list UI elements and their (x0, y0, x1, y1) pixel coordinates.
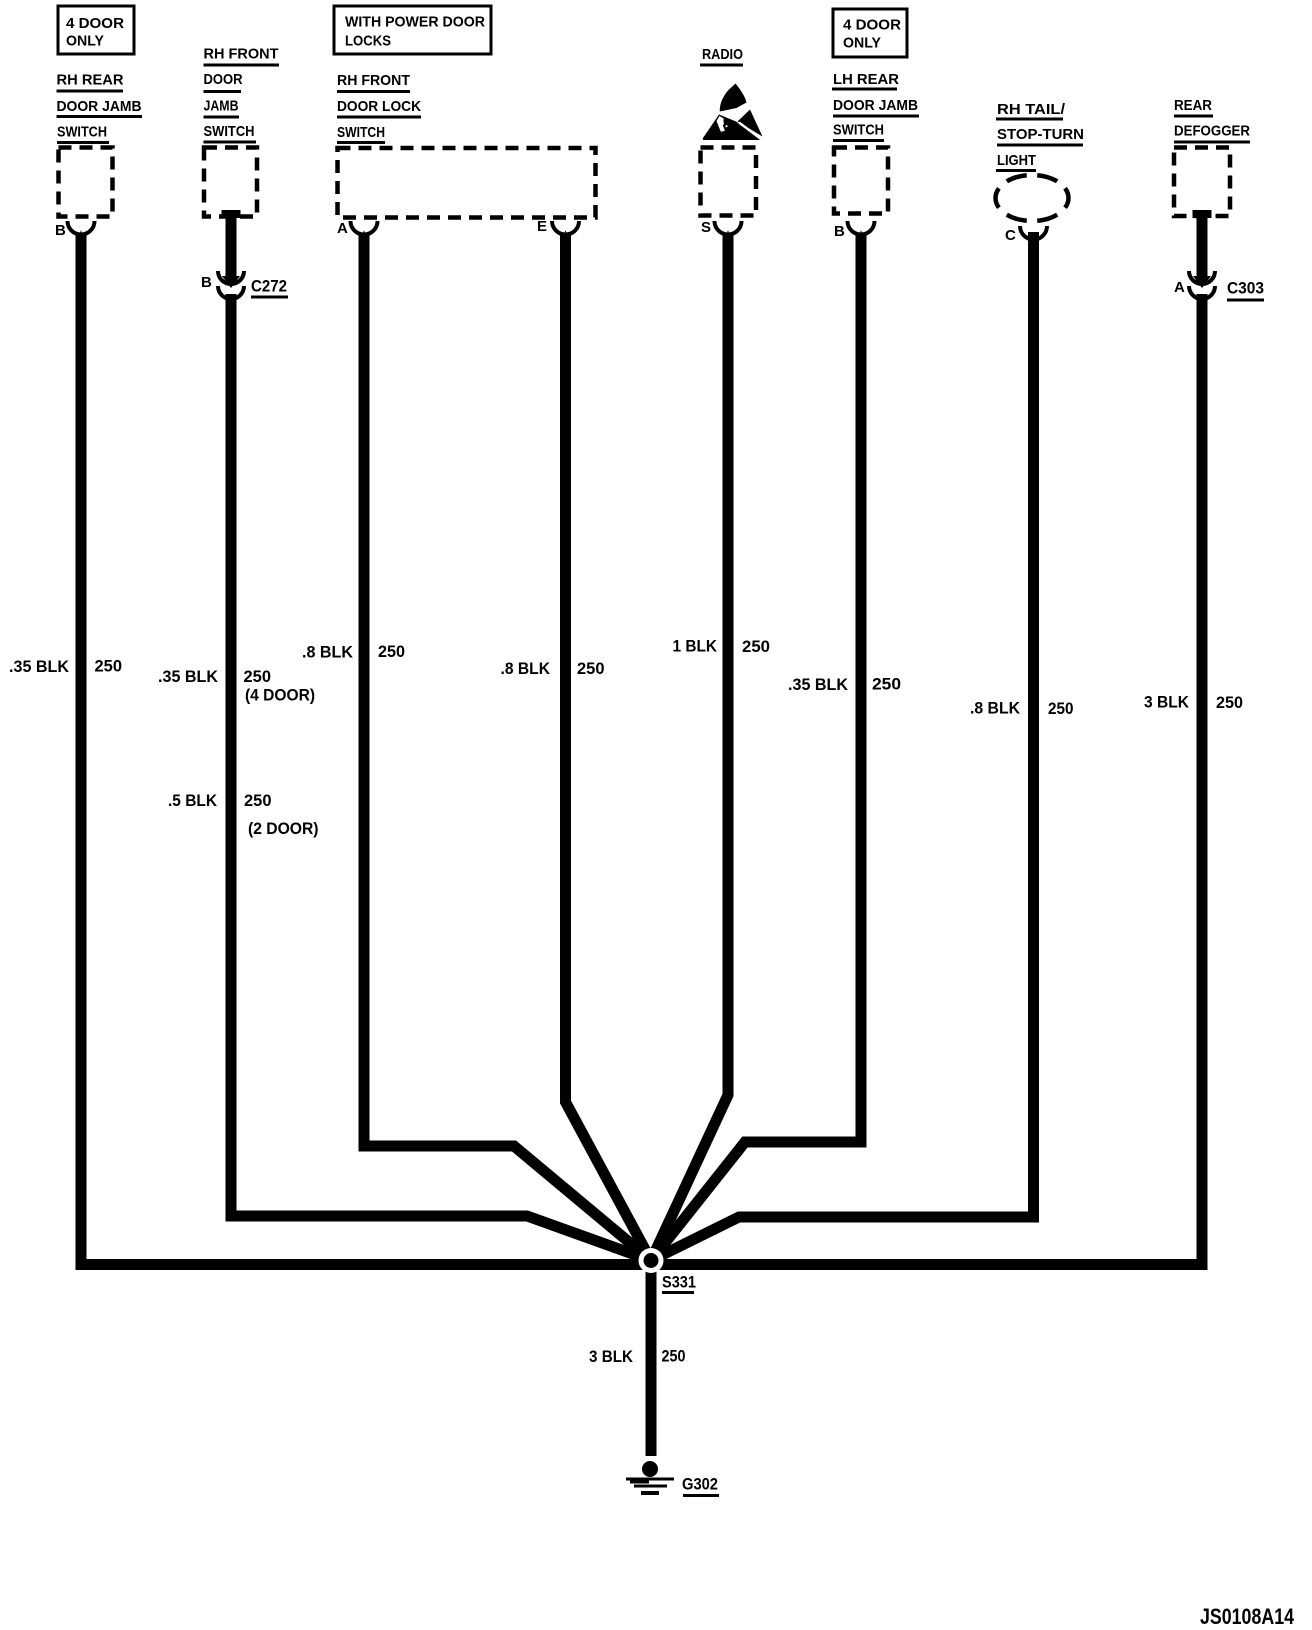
svg-text:DOOR JAMB: DOOR JAMB (833, 97, 918, 114)
svg-text:250: 250 (244, 667, 272, 686)
svg-text:250: 250 (872, 675, 901, 694)
svg-text:.35 BLK: .35 BLK (158, 667, 219, 686)
svg-text:S: S (701, 219, 711, 236)
svg-text:ONLY: ONLY (66, 33, 104, 50)
label LH REAR DOOR JAMB SWITCH (832, 71, 919, 141)
note box "4 DOOR ONLY" (right) (833, 9, 907, 57)
LH rear door jamb switch box (834, 148, 888, 214)
wire col6 (651, 234, 861, 1261)
svg-text:WITH POWER DOOR: WITH POWER DOOR (345, 14, 485, 31)
svg-text:RH REAR: RH REAR (57, 72, 124, 89)
svg-text:3 BLK: 3 BLK (589, 1347, 634, 1366)
svg-text:A: A (1174, 279, 1185, 296)
svg-text:.35 BLK: .35 BLK (788, 675, 849, 694)
svg-text:RH TAIL/: RH TAIL/ (997, 101, 1066, 118)
svg-text:C272: C272 (251, 277, 287, 296)
label RADIO (700, 46, 743, 65)
svg-text:JAMB: JAMB (204, 98, 239, 115)
pin B cup (RH rear door jamb switch) (55, 221, 95, 248)
svg-text:4 DOOR: 4 DOOR (843, 17, 901, 34)
svg-text:RADIO: RADIO (702, 46, 743, 63)
wire col7 (651, 232, 1034, 1261)
svg-text:1 BLK: 1 BLK (673, 637, 718, 656)
svg-text:B: B (201, 274, 212, 291)
note box "4 DOOR ONLY" (left) (58, 6, 134, 54)
wire col4 (566, 234, 652, 1261)
ground wire below splice (646, 1264, 657, 1456)
wire col1 + bottom bus (81, 234, 656, 1265)
pin cap (RH front door jamb switch) (222, 210, 241, 218)
label REAR DEFOGGER (1174, 97, 1250, 142)
svg-text:(4 DOOR): (4 DOOR) (245, 686, 315, 705)
svg-text:250: 250 (95, 657, 123, 676)
svg-text:RH FRONT: RH FRONT (337, 72, 410, 89)
svg-text:(2 DOOR): (2 DOOR) (248, 819, 319, 838)
svg-text:RH FRONT: RH FRONT (204, 46, 279, 63)
wire col8 upper (to C303) (1197, 214, 1208, 282)
svg-text:DOOR JAMB: DOOR JAMB (57, 98, 142, 115)
wire col8 lower + bottom bus right (646, 294, 1202, 1265)
RH tail/stop-turn light ellipse (996, 175, 1069, 221)
svg-text:LIGHT: LIGHT (997, 152, 1036, 169)
wire col3 (364, 234, 651, 1261)
pin B cup (LH rear door jamb switch) (834, 221, 875, 248)
svg-text:250: 250 (662, 1347, 686, 1366)
svg-text:E: E (537, 218, 547, 235)
svg-text:.8 BLK: .8 BLK (501, 659, 551, 678)
svg-text:LOCKS: LOCKS (345, 33, 391, 50)
svg-text:SWITCH: SWITCH (833, 122, 884, 139)
svg-text:250: 250 (577, 659, 605, 678)
svg-text:REAR: REAR (1174, 97, 1212, 114)
ground G302 (626, 1461, 719, 1496)
svg-text:250: 250 (1216, 693, 1243, 712)
svg-text:STOP-TURN: STOP-TURN (997, 126, 1084, 143)
splice S331 (639, 1248, 697, 1293)
svg-text:LH REAR: LH REAR (833, 71, 899, 88)
svg-text:SWITCH: SWITCH (57, 124, 107, 141)
svg-text:250: 250 (1048, 699, 1074, 718)
connector C303 (1174, 271, 1264, 300)
RH rear door jamb switch box (59, 148, 113, 217)
label RH FRONT DOOR JAMB SWITCH (204, 46, 280, 143)
note box "WITH POWER DOOR LOCKS" (334, 6, 491, 54)
svg-text:.8 BLK: .8 BLK (970, 699, 1021, 718)
pin S cup (radio) (701, 219, 742, 248)
rear defogger box (1174, 148, 1230, 217)
svg-text:SWITCH: SWITCH (204, 123, 255, 140)
svg-text:B: B (834, 223, 845, 240)
svg-text:4 DOOR: 4 DOOR (66, 15, 124, 32)
pin A cup (door lock switch) (337, 220, 378, 248)
svg-text:A: A (337, 220, 348, 237)
RH front door lock switch box (338, 148, 596, 218)
connector C272 (201, 271, 288, 299)
svg-text:.35 BLK: .35 BLK (9, 657, 70, 676)
wire col2 lower (231, 294, 651, 1261)
svg-text:C: C (1005, 227, 1016, 244)
svg-text:ONLY: ONLY (843, 35, 881, 52)
svg-text:DOOR LOCK: DOOR LOCK (337, 98, 421, 115)
svg-text:250: 250 (244, 791, 272, 810)
wire col2 upper (to C272) (226, 214, 237, 282)
pin E cup (door lock switch) (537, 218, 579, 248)
svg-text:.8 BLK: .8 BLK (302, 643, 354, 662)
svg-text:DOOR: DOOR (204, 71, 243, 88)
svg-text:.5 BLK: .5 BLK (168, 791, 218, 810)
label RH TAIL/STOP-TURN LIGHT (996, 101, 1084, 171)
pin C cup (tail light) (1005, 226, 1047, 253)
ESD symbol (703, 84, 763, 141)
RH front door jamb switch box (204, 148, 257, 217)
wire col5 (651, 234, 728, 1261)
svg-text:250: 250 (378, 642, 405, 661)
svg-text:B: B (55, 222, 66, 239)
svg-text:C303: C303 (1227, 279, 1264, 298)
svg-text:S331: S331 (662, 1273, 696, 1292)
svg-text:DEFOGGER: DEFOGGER (1174, 123, 1250, 140)
label RH REAR DOOR JAMB SWITCH (57, 72, 143, 143)
svg-text:3 BLK: 3 BLK (1144, 693, 1190, 712)
radio box (701, 148, 757, 216)
label RH FRONT DOOR LOCK SWITCH (337, 72, 421, 143)
svg-text:G302: G302 (682, 1475, 718, 1494)
svg-text:SWITCH: SWITCH (337, 124, 385, 141)
svg-text:JS0108A14: JS0108A14 (1200, 1604, 1295, 1629)
svg-text:250: 250 (742, 637, 770, 656)
pin cap (rear defogger) (1193, 210, 1212, 218)
